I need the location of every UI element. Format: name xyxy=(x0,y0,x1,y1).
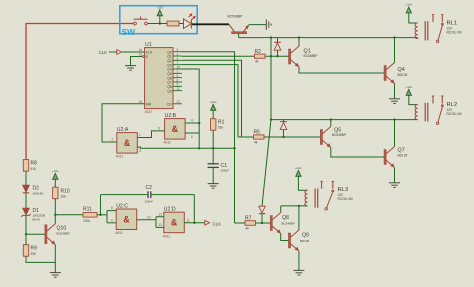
svg-text:RCOIL=80: RCOIL=80 xyxy=(338,197,353,201)
svg-text:R7: R7 xyxy=(245,216,252,222)
svg-text:R9: R9 xyxy=(31,246,38,252)
svg-text:CLK: CLK xyxy=(99,50,108,55)
svg-text:4011: 4011 xyxy=(163,234,170,238)
svg-text:100nF: 100nF xyxy=(145,200,154,204)
svg-text:U2:C: U2:C xyxy=(116,203,128,209)
svg-text:R2: R2 xyxy=(255,49,262,55)
svg-text:BC548BP: BC548BP xyxy=(228,15,244,19)
svg-text:U2:D: U2:D xyxy=(164,207,176,213)
svg-text:RCOIL=80: RCOIL=80 xyxy=(447,30,462,34)
svg-text:CO: CO xyxy=(167,102,172,106)
svg-text:BD139: BD139 xyxy=(398,73,408,77)
svg-text:6: 6 xyxy=(191,135,193,139)
svg-text:4011: 4011 xyxy=(116,155,123,159)
svg-text:4: 4 xyxy=(191,119,193,123)
svg-text:BC548BP: BC548BP xyxy=(304,54,318,58)
svg-text:MR: MR xyxy=(146,102,152,106)
svg-text:&: & xyxy=(123,214,130,224)
svg-text:100uF: 100uF xyxy=(221,169,230,173)
svg-text:1N4148: 1N4148 xyxy=(33,191,44,195)
svg-text:510: 510 xyxy=(31,167,37,171)
svg-text:+12v: +12v xyxy=(406,85,413,89)
svg-text:&: & xyxy=(172,124,179,134)
svg-text:Q7: Q7 xyxy=(398,147,405,153)
svg-text:BC548BP: BC548BP xyxy=(57,231,70,235)
svg-text:+12v: +12v xyxy=(210,100,217,104)
svg-text:BC548BP: BC548BP xyxy=(332,133,346,137)
svg-text:BV=6: BV=6 xyxy=(33,218,41,222)
svg-text:RCOIL=80: RCOIL=80 xyxy=(447,112,462,116)
svg-text:12: 12 xyxy=(159,212,163,216)
svg-text:11: 11 xyxy=(177,87,181,91)
svg-text:R5: R5 xyxy=(254,130,261,136)
svg-text:3: 3 xyxy=(139,149,141,153)
svg-text:SW: SW xyxy=(122,27,136,37)
svg-text:+12v: +12v xyxy=(406,3,413,7)
svg-text:1: 1 xyxy=(139,133,141,137)
svg-text:&: & xyxy=(171,217,178,227)
svg-text:11: 11 xyxy=(187,218,191,222)
svg-text:BC548BP: BC548BP xyxy=(282,221,295,225)
svg-text:51k: 51k xyxy=(218,125,224,129)
svg-text:10: 10 xyxy=(147,215,151,219)
svg-text:4011: 4011 xyxy=(115,231,122,235)
svg-text:Q9: Q9 xyxy=(302,232,309,238)
svg-text:R11: R11 xyxy=(83,206,92,212)
svg-text:13: 13 xyxy=(159,223,163,227)
svg-text:2: 2 xyxy=(112,138,114,142)
svg-text:330: 330 xyxy=(31,252,37,256)
svg-text:4017: 4017 xyxy=(145,110,153,114)
svg-text:Q8: Q8 xyxy=(282,215,289,221)
svg-text:U2:B: U2:B xyxy=(165,113,177,119)
svg-text:RL2: RL2 xyxy=(447,102,458,108)
svg-text:U1: U1 xyxy=(145,42,152,48)
svg-text:+12v: +12v xyxy=(157,5,164,9)
svg-text:+12v: +12v xyxy=(295,166,302,170)
svg-text:100k: 100k xyxy=(83,219,90,223)
svg-text:U2:A: U2:A xyxy=(117,127,129,133)
svg-text:14: 14 xyxy=(139,48,143,52)
svg-text:8: 8 xyxy=(111,206,113,210)
svg-text:RL3: RL3 xyxy=(338,187,349,193)
svg-text:9: 9 xyxy=(111,218,113,222)
svg-text:10k: 10k xyxy=(61,195,67,199)
svg-text:Q9: Q9 xyxy=(167,89,172,93)
svg-text:C2: C2 xyxy=(146,185,153,191)
svg-text:12: 12 xyxy=(177,100,181,104)
svg-text:+12v: +12v xyxy=(52,169,59,173)
svg-text:13: 13 xyxy=(139,53,143,57)
svg-text:R10: R10 xyxy=(61,188,70,194)
svg-text:BD139: BD139 xyxy=(398,154,408,158)
svg-text:5: 5 xyxy=(158,127,160,131)
svg-text:CLK: CLK xyxy=(213,221,222,226)
svg-text:4k: 4k xyxy=(254,141,258,145)
svg-text:CLK: CLK xyxy=(146,51,153,55)
svg-text:15: 15 xyxy=(139,100,143,104)
svg-text:4k: 4k xyxy=(246,227,250,231)
svg-text:BD139: BD139 xyxy=(300,239,310,243)
svg-text:R8: R8 xyxy=(31,161,38,167)
svg-text:4k: 4k xyxy=(255,60,259,64)
svg-text:&: & xyxy=(124,138,131,148)
svg-text:4011: 4011 xyxy=(164,141,171,145)
